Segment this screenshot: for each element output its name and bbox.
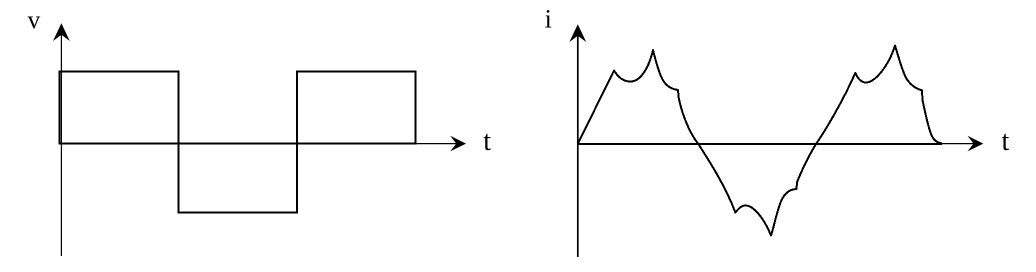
axis v (vertical) — [60, 33, 62, 256]
arrowhead v-axis — [53, 23, 70, 41]
axis t thin segment (right plot) — [942, 143, 975, 145]
axis t thick zero-line segment (right plot) — [577, 143, 942, 145]
square wave pulse 3 (positive) — [297, 72, 416, 144]
square wave pulse 2 (negative) — [179, 144, 298, 213]
current waveform curve — [578, 46, 941, 236]
svg-text:t: t — [483, 126, 491, 157]
square wave pulse 1 (positive) — [60, 72, 179, 144]
axis t (horizontal, left plot) — [60, 143, 458, 145]
arrowhead t-axis right — [968, 136, 984, 152]
svg-text:t: t — [1002, 126, 1010, 157]
arrowhead t-axis left — [450, 136, 466, 152]
axis i (vertical) — [577, 34, 579, 257]
svg-text:i: i — [545, 4, 552, 33]
svg-text:v: v — [28, 7, 41, 34]
arrowhead i-axis — [569, 24, 586, 42]
